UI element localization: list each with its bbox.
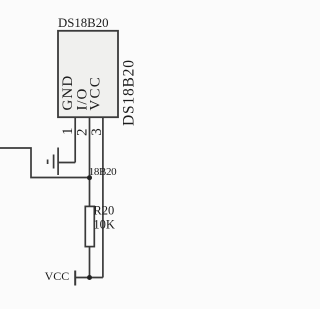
junction on VCC rail bbox=[87, 275, 92, 280]
svg-text:10K: 10K bbox=[93, 218, 115, 232]
svg-text:DS18B20: DS18B20 bbox=[58, 16, 109, 30]
svg-text:R20: R20 bbox=[93, 204, 114, 218]
pin 3 wire (VCC pin down to VCC rail) bbox=[102, 117, 104, 278]
resistor R20 body bbox=[85, 206, 94, 246]
ground (earth ground, rotated pointing left) bbox=[48, 148, 76, 176]
VCC rail wire bbox=[75, 277, 103, 279]
junction on I/O net bbox=[87, 175, 92, 180]
svg-text:2: 2 bbox=[74, 129, 90, 137]
pin 2 wire (I/O pin down to resistor top) bbox=[89, 117, 91, 207]
svg-text:VCC: VCC bbox=[45, 269, 70, 283]
svg-text:DS18B20: DS18B20 bbox=[121, 59, 138, 126]
wire (I/O net to left edge) bbox=[0, 148, 90, 178]
svg-text:VCC: VCC bbox=[87, 76, 103, 110]
svg-text:18B20: 18B20 bbox=[89, 166, 117, 178]
wire (resistor bottom to VCC rail) bbox=[89, 247, 91, 278]
IC box U1 DS18B20 bbox=[58, 31, 118, 117]
VCC power port bar bbox=[74, 271, 76, 286]
svg-text:3: 3 bbox=[89, 128, 105, 136]
pin 1 wire (GND pin down to ground) bbox=[74, 117, 76, 163]
